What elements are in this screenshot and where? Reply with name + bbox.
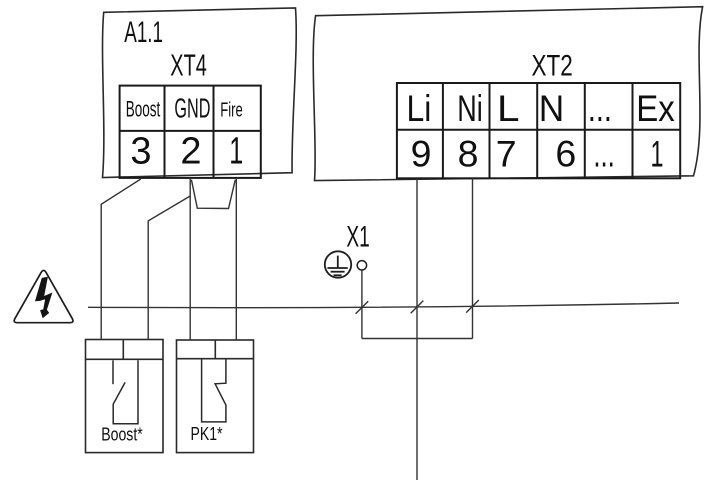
bus wire horizontal — [88, 303, 679, 308]
wire XT4 pin3 to Boost box — [101, 179, 141, 340]
svg-text:Ex: Ex — [636, 88, 675, 129]
crossing slash on X1 wire — [356, 301, 369, 314]
svg-text:...: ... — [593, 133, 615, 175]
svg-text:Ni: Ni — [457, 88, 483, 129]
lightning bolt arrow — [35, 277, 52, 318]
wire XT2 pin8 down — [472, 178, 474, 338]
crossing slash on pin8 wire — [466, 300, 479, 313]
thermal contact PK1 — [202, 359, 226, 422]
terminal block XT4 table — [120, 86, 261, 178]
svg-text:XT2: XT2 — [532, 50, 573, 83]
svg-text:N: N — [539, 88, 565, 129]
svg-text:Fire: Fire — [220, 99, 243, 122]
terminal block XT2 table — [397, 83, 680, 178]
component box PK1 — [177, 340, 254, 453]
protective earth symbol — [325, 251, 351, 277]
svg-text:8: 8 — [458, 133, 479, 175]
component box Boost — [86, 340, 164, 453]
svg-text:1: 1 — [229, 131, 243, 173]
module A1.1 outline — [103, 8, 297, 178]
svg-text:7: 7 — [496, 133, 517, 175]
wire branch XT4 pin2 to Boost box — [148, 196, 190, 340]
cable connector symbol under XT4 — [191, 180, 235, 209]
module XT2 outline — [313, 7, 702, 181]
wire XT4 pin1 to PK1 box — [235, 179, 237, 340]
wire X1 down — [361, 270, 363, 339]
svg-text:L: L — [497, 88, 520, 129]
crossing slash on pin9 wire — [411, 301, 424, 314]
svg-text:9: 9 — [411, 133, 432, 175]
wire jumper X1 to pin8 — [362, 338, 473, 340]
svg-text:Li: Li — [407, 88, 432, 129]
svg-text:Boost: Boost — [126, 97, 161, 122]
svg-text:1: 1 — [651, 133, 664, 175]
svg-text:A1.1: A1.1 — [124, 16, 163, 49]
svg-text:6: 6 — [555, 133, 576, 175]
svg-text:...: ... — [588, 88, 612, 129]
svg-text:3: 3 — [130, 131, 151, 173]
svg-text:X1: X1 — [346, 221, 369, 254]
svg-text:GND: GND — [174, 93, 210, 124]
warning triangle high voltage — [14, 270, 73, 322]
svg-text:PK1*: PK1* — [191, 423, 223, 444]
svg-text:XT4: XT4 — [170, 47, 207, 82]
terminal X1 circle — [357, 261, 366, 270]
svg-text:2: 2 — [180, 131, 201, 173]
switch contact Boost — [113, 360, 138, 423]
wire XT2 pin9 down — [416, 179, 418, 480]
svg-text:Boost*: Boost* — [101, 424, 143, 445]
wire XT4 pin2 to PK1 box — [189, 179, 191, 340]
